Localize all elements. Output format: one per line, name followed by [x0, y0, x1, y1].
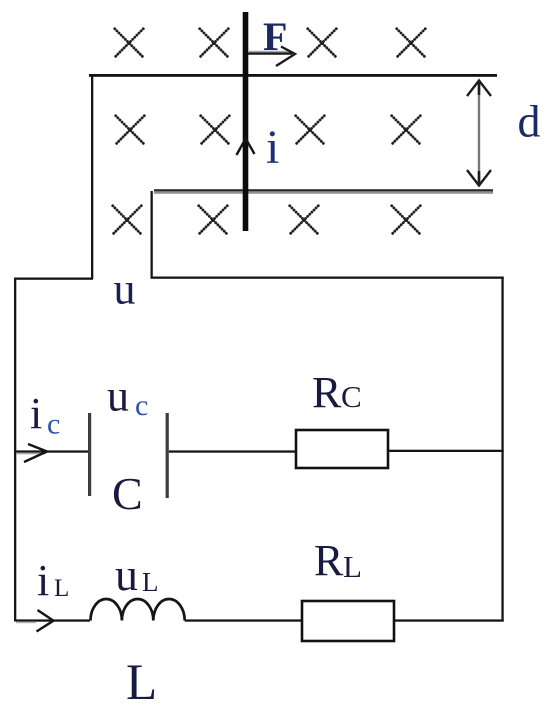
svg-text:c: c [135, 389, 148, 422]
top rail [89, 74, 497, 77]
arrow i_L [37, 610, 54, 632]
label i [266, 121, 279, 174]
wire inductor to RL [185, 619, 302, 621]
arrow i_c [24, 444, 47, 462]
svg-text:u: u [115, 549, 138, 600]
svg-text:C: C [112, 468, 143, 519]
svg-text:i: i [37, 556, 49, 605]
label i_c [30, 389, 60, 441]
label u_L [115, 549, 159, 600]
svg-text:R: R [314, 536, 344, 585]
label F [263, 14, 287, 59]
field cross row2 c1 [116, 116, 145, 145]
svg-text:d: d [518, 96, 541, 147]
svg-text:i: i [30, 389, 42, 438]
svg-text:L: L [343, 549, 362, 584]
field cross row3 c1 [113, 206, 142, 235]
bottom rail [154, 189, 493, 194]
resistor RL box [302, 601, 394, 641]
svg-text:L: L [54, 575, 69, 602]
svg-text:i: i [266, 121, 279, 174]
wire capacitor branch left [16, 450, 88, 454]
wire shadow near i_L arrow [16, 622, 36, 624]
svg-text:C: C [341, 379, 362, 414]
wire right bus vertical [501, 277, 503, 622]
wire inductor branch left [16, 619, 90, 621]
current arrow i [237, 139, 255, 156]
wire capacitor to RC [169, 450, 296, 452]
label L (inductor) [126, 655, 157, 708]
resistor RC box [296, 430, 388, 468]
svg-text:L: L [126, 655, 157, 708]
svg-text:c: c [47, 408, 60, 441]
label RC [312, 368, 362, 417]
field cross row1 c1 [115, 29, 144, 58]
label u (node u) [114, 265, 136, 314]
wire left bus vertical [14, 278, 16, 622]
label i_L [37, 556, 69, 605]
svg-text:R: R [312, 368, 342, 417]
conducting bar [243, 12, 249, 231]
field cross row1 c4 [397, 29, 426, 58]
capacitor C right plate [166, 413, 169, 498]
svg-text:F: F [263, 14, 287, 59]
svg-text:u: u [107, 372, 129, 421]
wire left stub horizontal [14, 278, 93, 280]
capacitor C left plate [88, 413, 91, 496]
d dimension arrow [467, 80, 491, 186]
wire RC to right bus [388, 450, 504, 452]
wire second rail vertical [151, 191, 153, 278]
field cross row3 c4 [392, 206, 421, 235]
wire left rail vertical [91, 75, 93, 279]
wire RL to right bus [394, 619, 504, 621]
label RL [314, 536, 362, 585]
svg-text:u: u [114, 265, 136, 314]
force arrow F [248, 47, 295, 67]
label d [518, 96, 541, 147]
field cross row1 c3 [308, 29, 337, 58]
field cross row2 c3 [296, 116, 325, 145]
wire right stub horizontal [151, 277, 504, 279]
label u_c [107, 372, 148, 423]
field cross row3 c2 [199, 206, 228, 235]
field cross row1 c2 [200, 29, 229, 58]
field cross row2 c4 [392, 116, 421, 145]
field cross row2 c2 [201, 116, 230, 145]
inductor L coil [91, 599, 185, 621]
svg-text:L: L [142, 567, 159, 597]
label C (capacitor) [112, 468, 143, 519]
field cross row3 c3 [290, 206, 319, 235]
